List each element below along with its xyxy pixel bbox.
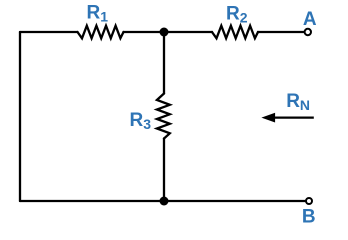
svg-text:R3: R3 [130, 110, 152, 132]
wire R1 to top node [124, 31, 165, 33]
wire top-left segment [20, 31, 78, 33]
svg-text:B: B [302, 207, 316, 228]
svg-text:R1: R1 [87, 2, 109, 24]
resistor R2 [212, 26, 258, 39]
svg-text:A: A [303, 9, 317, 30]
node junction bottom [160, 197, 169, 206]
wire top node to R3 [163, 32, 165, 94]
wire R3 to bottom node [163, 139, 165, 202]
wire left side [19, 32, 21, 201]
arrow R_N line [272, 116, 314, 118]
wire top node to R2 [164, 31, 212, 33]
terminal B circle [306, 198, 312, 204]
terminal A circle [305, 29, 311, 35]
resistor R1 [78, 26, 124, 39]
node junction top [160, 28, 169, 37]
svg-text:R2: R2 [226, 4, 248, 26]
wire bottom node to terminal B [164, 200, 305, 202]
resistor R3 [157, 94, 170, 139]
arrow R_N head [261, 113, 275, 123]
wire R2 to terminal A [258, 31, 304, 33]
wire bottom-left segment [20, 200, 164, 202]
svg-text:RN: RN [286, 91, 310, 113]
